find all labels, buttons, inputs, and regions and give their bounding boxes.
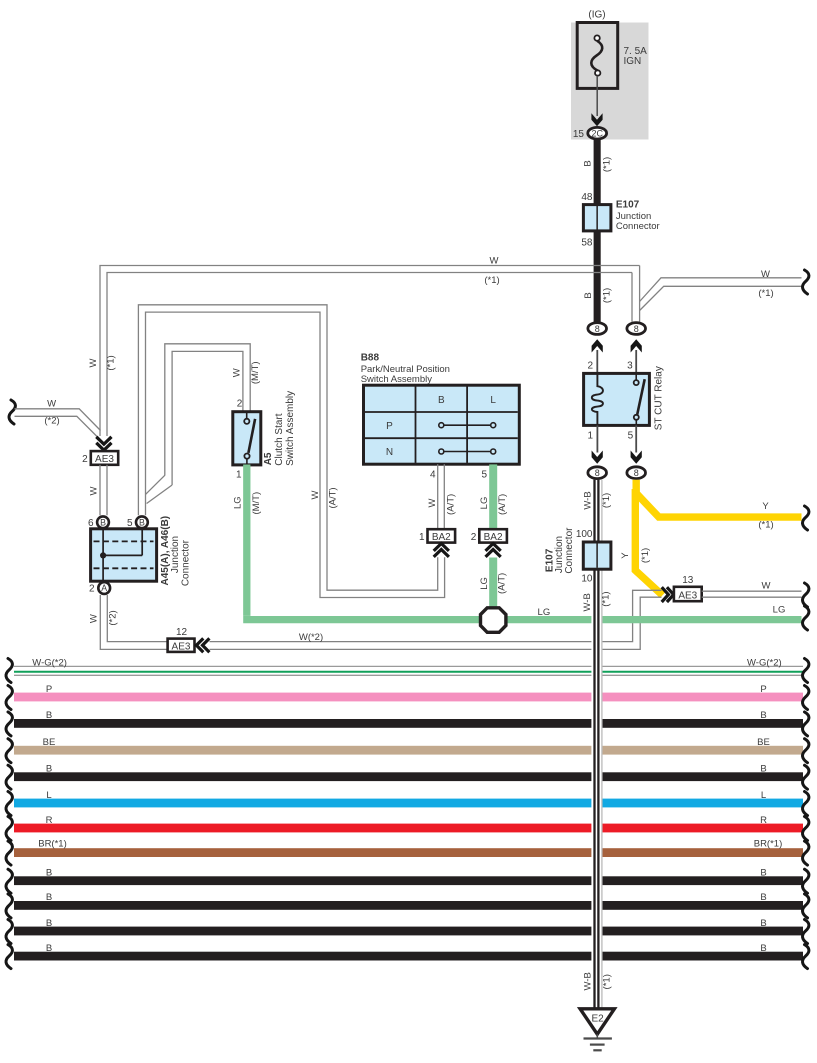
wire BE bus	[14, 746, 803, 755]
svg-text:B: B	[760, 892, 766, 903]
break BE right	[803, 739, 809, 763]
wire W (*2) pin A to AE3 pin12	[100, 595, 167, 649]
svg-text:A5: A5	[263, 452, 274, 465]
break B right	[803, 920, 809, 944]
svg-text:W: W	[232, 368, 243, 377]
svg-text:(*1): (*1)	[758, 520, 773, 531]
svg-text:BA2: BA2	[432, 532, 451, 543]
svg-text:(*1): (*1)	[106, 355, 117, 370]
wire LG from clutch switch pin1 down and right	[243, 465, 801, 620]
wire P bus	[14, 693, 803, 702]
svg-text:W: W	[89, 486, 100, 495]
svg-text:B88: B88	[361, 352, 380, 363]
svg-text:(*1): (*1)	[758, 288, 773, 299]
svg-text:P: P	[386, 421, 393, 432]
svg-text:L: L	[490, 395, 496, 406]
connector oval 2C	[588, 127, 607, 139]
connector AE3 (pin 13)	[674, 587, 702, 602]
connector circle A (pin2)	[98, 582, 110, 594]
svg-text:Connector: Connector	[616, 221, 660, 232]
svg-text:Clutch Start: Clutch Start	[274, 413, 285, 465]
relay coil	[592, 375, 603, 425]
svg-text:2: 2	[89, 584, 95, 595]
svg-text:48: 48	[581, 192, 593, 203]
svg-text:(*1): (*1)	[602, 974, 613, 989]
svg-text:LG: LG	[773, 604, 786, 615]
connector oval 8 (relay pin 2 top)	[588, 323, 607, 335]
arrow down into oval 8 (pin5)	[631, 451, 642, 464]
break symbol right top	[803, 270, 809, 294]
svg-text:W-G(*2): W-G(*2)	[32, 657, 67, 668]
break symbol W right	[803, 583, 809, 607]
svg-text:Y: Y	[620, 552, 631, 559]
break B left	[6, 869, 12, 893]
junction connector E107 (48/58)	[583, 205, 611, 231]
svg-text:8: 8	[634, 324, 639, 334]
break R right	[803, 817, 809, 841]
power source shading box	[571, 23, 649, 140]
wire LG below BA2-2 to octagon	[489, 558, 497, 608]
svg-text:AE3: AE3	[95, 454, 114, 465]
svg-text:2: 2	[471, 532, 477, 543]
svg-text:2C: 2C	[591, 128, 603, 138]
wire junction diagonals to clutch switch branch	[146, 475, 173, 503]
wire B bus	[14, 952, 803, 961]
svg-text:W: W	[490, 256, 499, 267]
svg-text:BA2: BA2	[484, 532, 503, 543]
svg-text:LG: LG	[232, 496, 243, 509]
svg-text:5: 5	[127, 518, 133, 529]
svg-text:(*1): (*1)	[640, 548, 651, 563]
svg-text:(*1): (*1)	[602, 288, 613, 303]
svg-text:B: B	[760, 868, 766, 879]
svg-text:W-B: W-B	[582, 491, 593, 509]
arrow up into oval 8 (pin2)	[592, 339, 603, 352]
wire W-G (*2) bus	[14, 666, 803, 675]
svg-text:10: 10	[581, 574, 593, 585]
white channel over buses for W-B	[591, 660, 602, 1009]
svg-text:BE: BE	[757, 737, 770, 748]
svg-text:AE3: AE3	[172, 641, 191, 652]
svg-text:BE: BE	[43, 737, 56, 748]
svg-text:BR(*1): BR(*1)	[754, 838, 783, 849]
svg-text:58: 58	[581, 238, 593, 249]
svg-text:(*1): (*1)	[602, 157, 613, 172]
svg-text:3: 3	[627, 361, 633, 372]
svg-text:B: B	[583, 160, 594, 166]
svg-text:W: W	[427, 498, 438, 507]
svg-text:AE3: AE3	[678, 590, 697, 601]
relay box ST CUT	[584, 373, 650, 425]
svg-text:8: 8	[634, 468, 639, 478]
svg-text:2: 2	[588, 361, 594, 372]
chevron arrows into AE3 pin2	[96, 437, 111, 450]
svg-text:(*1): (*1)	[484, 275, 499, 286]
wire W (*2) from left break	[15, 409, 101, 440]
chevron arrows below BA2-2	[486, 544, 501, 557]
svg-text:L: L	[761, 790, 766, 801]
svg-text:2: 2	[82, 454, 88, 465]
break symbol LG right	[803, 606, 809, 630]
arrow down into oval 8 (pin1)	[592, 451, 603, 464]
svg-text:W(*2): W(*2)	[299, 632, 323, 643]
svg-text:(M/T): (M/T)	[251, 492, 262, 515]
break W-G left	[6, 659, 12, 683]
svg-text:12: 12	[176, 627, 188, 638]
octagon junction	[481, 608, 506, 633]
chevron arrows out of AE3-12	[196, 638, 209, 652]
svg-text:W-B: W-B	[582, 593, 593, 611]
svg-text:E107: E107	[616, 199, 640, 210]
break R left	[6, 817, 12, 841]
break P right	[803, 686, 809, 710]
svg-text:B: B	[438, 395, 445, 406]
svg-text:B: B	[46, 918, 52, 929]
svg-text:P: P	[760, 684, 766, 695]
contact row P	[439, 423, 496, 428]
break B left	[6, 920, 12, 944]
svg-text:Connector: Connector	[181, 539, 192, 586]
svg-text:B: B	[46, 764, 52, 775]
svg-text:(A/T): (A/T)	[497, 573, 508, 594]
wire B (*1) from 2C to ST CUT relay pin 2	[594, 140, 601, 322]
svg-text:P: P	[46, 684, 52, 695]
svg-text:(A/T): (A/T)	[497, 494, 508, 515]
wire W (M/T) clutch switch branch	[165, 344, 250, 485]
wire W: AE3 pin2 down to junction connector pin B6	[100, 465, 107, 516]
svg-text:(A/T): (A/T)	[328, 487, 339, 508]
svg-text:W: W	[47, 399, 56, 410]
svg-text:LG: LG	[479, 577, 490, 590]
label 7.5A IGN	[624, 46, 648, 67]
svg-text:8: 8	[595, 468, 600, 478]
svg-text:E2: E2	[591, 1014, 604, 1025]
svg-text:B: B	[760, 918, 766, 929]
wire W (A/T) B88 pin4 to BA2 pin1	[438, 464, 445, 529]
svg-text:B: B	[760, 710, 766, 721]
svg-text:5: 5	[481, 470, 487, 481]
wire Y down to AE3 pin13	[635, 489, 662, 595]
break L right	[803, 792, 809, 816]
wire LG (A/T) B88 pin5 to BA2 pin2	[489, 464, 497, 529]
svg-text:B: B	[760, 764, 766, 775]
relay switch	[634, 375, 645, 425]
svg-text:Connector: Connector	[564, 527, 575, 574]
junction connector A45(A),A46(B)	[91, 529, 157, 581]
junction connector E107 (100/10)	[583, 542, 611, 569]
break B right	[803, 712, 809, 736]
break B left	[6, 712, 12, 736]
wire stub pin5	[635, 425, 637, 452]
wire BR(*1) bus	[14, 848, 803, 857]
chevron arrows below BA2-1	[434, 544, 449, 557]
wire stub pin1	[596, 425, 598, 452]
wire B bus	[14, 876, 803, 885]
grey edge of W-B over buses	[601, 660, 603, 1009]
connector oval 8 (pin5 bottom)	[627, 467, 646, 479]
wire W (*1): AE3 pin2 up and across the top	[100, 266, 640, 437]
svg-text:L: L	[46, 790, 51, 801]
wire B bus	[14, 772, 803, 781]
connector oval 8 (relay pin 3 top)	[627, 323, 646, 335]
break P left	[6, 686, 12, 710]
clutch start switch A5	[233, 412, 261, 465]
wire W-B over buses	[595, 660, 599, 1009]
chevron arrows into AE3 pin13	[662, 587, 674, 602]
white channel for W-B wire through coloured buses	[591, 483, 602, 1009]
svg-text:B: B	[46, 943, 52, 954]
connector BA2 (pin 1)	[428, 529, 456, 543]
svg-text:B: B	[583, 292, 594, 298]
break B left	[6, 765, 12, 789]
svg-text:2: 2	[237, 398, 243, 409]
wire L bus	[14, 799, 803, 808]
svg-text:W: W	[761, 269, 770, 280]
svg-text:R: R	[46, 815, 53, 826]
svg-text:B: B	[46, 710, 52, 721]
svg-text:W: W	[310, 490, 321, 499]
arrow up into oval 8 (pin3)	[631, 339, 642, 352]
svg-text:R: R	[760, 815, 767, 826]
wire B bus	[14, 719, 803, 728]
break B left	[6, 894, 12, 918]
ground hatching	[584, 1034, 612, 1050]
break W-G right	[803, 659, 809, 683]
svg-text:15: 15	[573, 129, 585, 140]
wire stub pin3	[635, 350, 637, 374]
wire stub pin2	[596, 350, 598, 374]
svg-text:Switch Assembly: Switch Assembly	[361, 374, 433, 385]
break B right	[803, 945, 809, 969]
break symbol Y right	[803, 506, 809, 530]
break B right	[803, 869, 809, 893]
wire W right of AE3-13	[702, 591, 802, 597]
svg-text:B: B	[760, 943, 766, 954]
connector circle B (pin5)	[136, 516, 148, 528]
wire Y (*1) to right break	[636, 480, 801, 517]
svg-text:LG: LG	[538, 607, 551, 618]
svg-text:4: 4	[430, 470, 436, 481]
svg-text:N: N	[386, 447, 393, 458]
wire fuse to connector 2C	[596, 76, 598, 116]
connector AE3 (pin 2)	[91, 451, 118, 465]
svg-text:B: B	[46, 892, 52, 903]
wire branch to right break W (*1)	[640, 278, 802, 311]
svg-text:B: B	[46, 868, 52, 879]
svg-text:W: W	[88, 358, 99, 367]
svg-text:BR(*1): BR(*1)	[38, 838, 67, 849]
wire W(*2): AE3 pin12 to AE3 pin13	[210, 590, 662, 649]
break B right	[803, 894, 809, 918]
connector circle B (pin6)	[97, 516, 109, 528]
svg-text:W: W	[89, 614, 100, 623]
wire B bus	[14, 927, 803, 936]
park/neutral position switch assembly B88	[364, 385, 520, 464]
connector AE3 (pin 12)	[168, 639, 195, 653]
svg-text:LG: LG	[479, 497, 490, 510]
svg-text:(M/T): (M/T)	[250, 361, 261, 384]
wire W: pin B5 loop up across and down to BA2 pin1	[138, 305, 444, 598]
svg-text:6: 6	[88, 518, 94, 529]
contact row N	[439, 449, 496, 454]
svg-text:(*2): (*2)	[108, 610, 119, 625]
svg-text:(*1): (*1)	[601, 493, 612, 508]
svg-text:100: 100	[576, 529, 593, 540]
connector BA2 (pin 2)	[479, 529, 507, 543]
svg-text:ST CUT Relay: ST CUT Relay	[653, 366, 664, 430]
fuse F1 7.5A IGN	[577, 23, 618, 89]
svg-text:B: B	[139, 517, 145, 527]
svg-text:5: 5	[628, 431, 634, 442]
break symbol left	[9, 400, 15, 424]
ground triangle E2	[580, 1009, 614, 1034]
break B right	[803, 765, 809, 789]
svg-text:W: W	[762, 581, 771, 592]
svg-text:1: 1	[236, 470, 242, 481]
break BR(*1) left	[6, 841, 12, 865]
break L left	[6, 792, 12, 816]
break BR(*1) right	[803, 841, 809, 865]
svg-text:Switch Assembly: Switch Assembly	[285, 391, 296, 466]
label E107 Junction Connector	[616, 199, 660, 232]
svg-text:B: B	[100, 517, 106, 527]
svg-text:(*1): (*1)	[601, 591, 612, 606]
wire W-B (*1) oval8 to ground	[595, 480, 599, 1009]
break B left	[6, 945, 12, 969]
wire R bus	[14, 824, 803, 833]
svg-text:8: 8	[595, 324, 600, 334]
svg-text:13: 13	[682, 575, 694, 586]
svg-text:A: A	[101, 583, 107, 593]
svg-text:(IG): (IG)	[588, 10, 605, 21]
svg-text:(A/T): (A/T)	[445, 494, 456, 515]
svg-text:IGN: IGN	[624, 56, 642, 67]
wire B bus	[14, 901, 803, 910]
grey edge line of W-B wire	[601, 480, 603, 1009]
svg-text:(*2): (*2)	[44, 416, 59, 427]
connector oval 8 (pin1 bottom)	[588, 467, 607, 479]
svg-text:Y: Y	[762, 501, 769, 512]
svg-text:1: 1	[419, 532, 425, 543]
svg-text:1: 1	[588, 431, 594, 442]
svg-text:W-G(*2): W-G(*2)	[747, 657, 782, 668]
break BE left	[6, 739, 12, 763]
arrow into 2C	[591, 113, 602, 126]
